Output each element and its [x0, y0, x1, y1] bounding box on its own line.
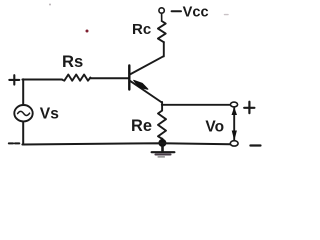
wire top rail left segment	[22, 79, 62, 81]
source Vs sine wave	[18, 111, 30, 115]
transistor Q1 emitter lead	[130, 81, 162, 103]
terminal Vo+ (open circle)	[230, 102, 237, 107]
ground stub	[161, 147, 164, 152]
svg-text:Vs: Vs	[40, 105, 59, 122]
svg-text:Vo: Vo	[205, 119, 224, 136]
ground bar 3	[158, 156, 164, 158]
resistor Re	[158, 111, 166, 139]
speck (gray scan dot top-left)	[49, 4, 51, 6]
junction dot (emitter ground node)	[158, 139, 166, 147]
wire Vo arrow shaft	[233, 108, 235, 140]
polarity plus (input)	[9, 75, 19, 84]
resistor Rc	[158, 21, 166, 42]
svg-text:Re: Re	[131, 117, 152, 135]
wire collector stub vertical	[163, 42, 165, 56]
resistor Rs	[62, 75, 90, 81]
label -Vcc dash	[172, 10, 181, 12]
transistor Q1 emitter arrowhead	[134, 80, 148, 89]
wire Vcc stub	[161, 13, 163, 21]
wire output rail (emitter node to Vo+)	[162, 104, 231, 106]
speck (red scan dot)	[86, 30, 89, 33]
wire emitter node stub	[161, 102, 163, 111]
wire top rail right segment (to base)	[90, 77, 128, 79]
svg-text:Vcc: Vcc	[183, 5, 209, 21]
transistor Q1 collector lead	[130, 56, 164, 74]
source Vs circle	[14, 105, 32, 121]
polarity plus (output)	[244, 102, 254, 113]
wire bottom rail	[22, 143, 230, 144]
ground bar 2	[155, 154, 170, 156]
Vo arrowhead up	[232, 107, 238, 115]
ground bar 1	[152, 151, 175, 153]
wire Re bottom stub	[161, 139, 163, 143]
polarity minus (input)	[9, 142, 19, 144]
terminal Vo- (open circle)	[230, 141, 238, 146]
transistor Q1 base bar	[128, 66, 130, 90]
svg-text:Rs: Rs	[62, 52, 83, 71]
polarity minus (output)	[250, 144, 260, 146]
wire top-left vertical (source to top rail)	[22, 79, 24, 105]
wire bottom-left vertical (source to bottom rail)	[22, 121, 24, 144]
terminal Vcc (open circle)	[159, 8, 164, 13]
speck (gray scan mark)	[225, 14, 229, 16]
svg-text:Rc: Rc	[132, 21, 151, 38]
Vo arrowhead down	[232, 131, 237, 141]
